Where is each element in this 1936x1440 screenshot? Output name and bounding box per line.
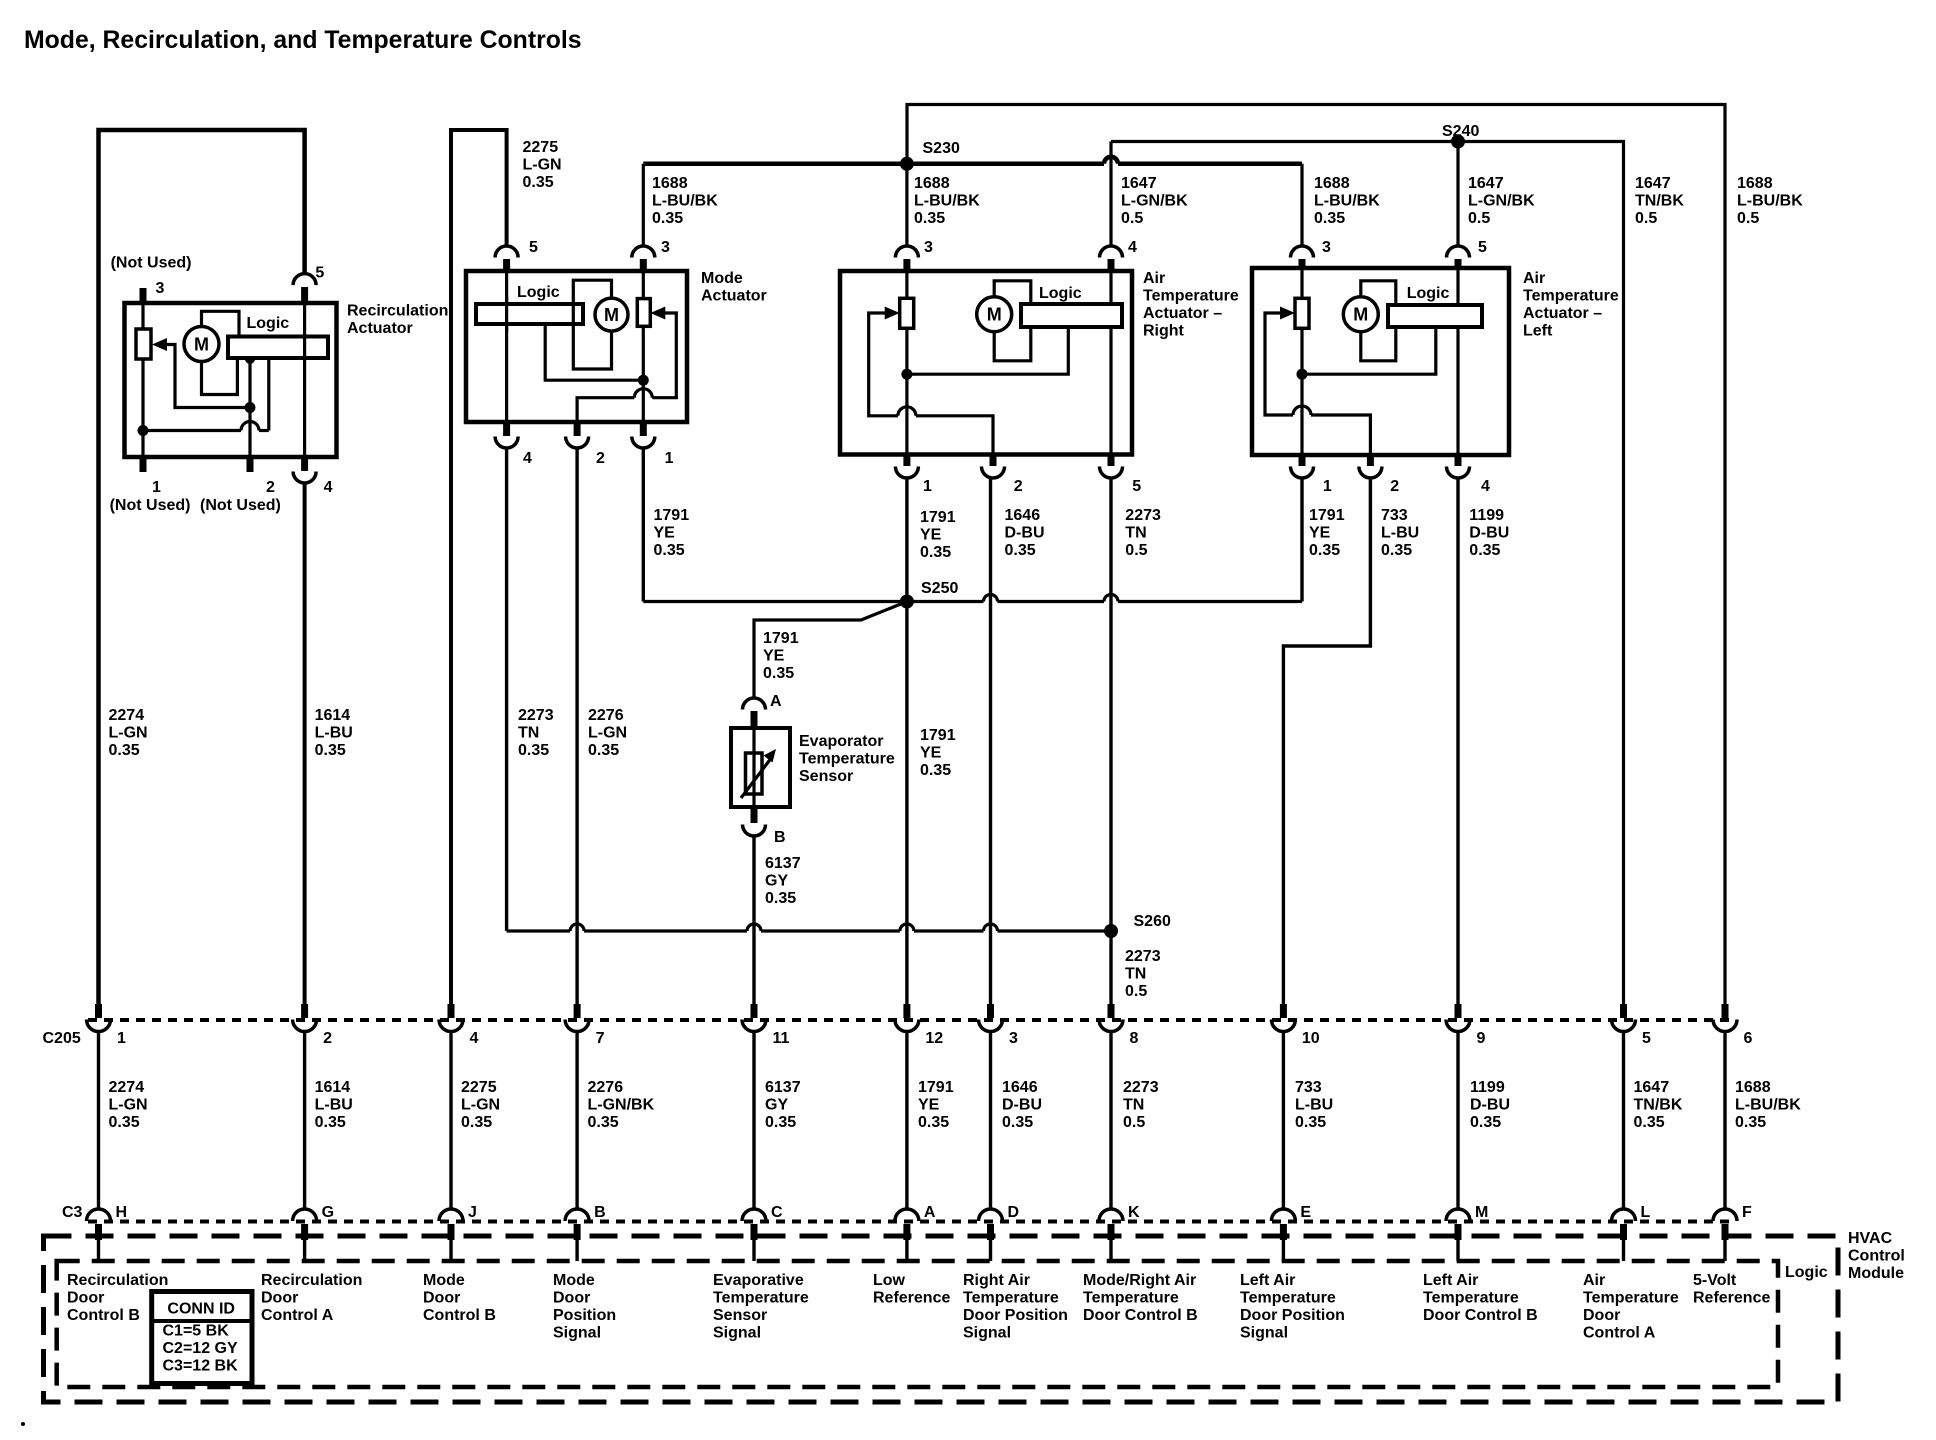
- svg-text:YE: YE: [1309, 525, 1331, 542]
- svg-text:8: 8: [1130, 1030, 1139, 1047]
- mode pin 4 connector: [495, 422, 518, 448]
- wire right ATA pin1 to S250 and on to C205 pin 12 (1791 YE): [905, 478, 908, 1004]
- label 1647 L-GN/BK 0.5: [1121, 175, 1188, 227]
- junction dot right ATA logic tie: [901, 369, 912, 380]
- svg-text:Logic: Logic: [247, 315, 290, 332]
- module pin label: Low Reference: [873, 1272, 950, 1307]
- wire right ATA pin2 down to C205 pin 3 (1646 D-BU): [989, 478, 992, 1004]
- recirc potentiometer: [136, 329, 151, 359]
- wire C3 pin H into HVAC module: [97, 1240, 100, 1261]
- label 2274 L-GN 0.35 (recirc loop column): [109, 707, 148, 759]
- svg-text:L-BU/BK: L-BU/BK: [914, 193, 980, 210]
- left ATA motor bottom lead: [1361, 327, 1396, 361]
- labels (Not Used) below recirc pins 1 and 2: [110, 497, 281, 514]
- svg-text:Mode/Right Air: Mode/Right Air: [1083, 1272, 1196, 1289]
- label 1791 YE 0.35 (evap A): [763, 630, 799, 682]
- left ATA motor top lead: [1361, 281, 1396, 305]
- svg-text:YE: YE: [654, 525, 676, 542]
- wire mode pin1 down to S250 (1791 YE): [642, 448, 645, 602]
- label: Recirculation Actuator: [347, 303, 448, 338]
- svg-text:2: 2: [596, 450, 605, 467]
- svg-text:L: L: [1641, 1204, 1651, 1221]
- svg-text:Signal: Signal: [713, 1325, 761, 1342]
- mode wiper wire to pin 2 (hop over pin1 column): [577, 313, 676, 422]
- left ATA pin3 column to pot: [1300, 268, 1303, 298]
- C3 pin J connector: [439, 1209, 463, 1240]
- svg-text:Sensor: Sensor: [799, 768, 853, 785]
- label 1791 YE 0.35 (left ATA pin1): [1309, 507, 1345, 559]
- label 1688 L-BU/BK 0.35 (left ATA pin3): [1314, 175, 1380, 227]
- mode pin 3 connector: [632, 246, 655, 271]
- right ATA pin 3 connector: [895, 246, 918, 271]
- C205 pin 3 connector: [979, 1004, 1003, 1032]
- svg-text:Signal: Signal: [963, 1325, 1011, 1342]
- right ATA motor M: [977, 297, 1012, 332]
- C205 pin 5 connector: [1612, 1004, 1636, 1032]
- right ATA pin 4 connector: [1100, 246, 1123, 271]
- mode pot bottom to pin 1 column: [642, 326, 645, 422]
- left ATA wiper arrow: [1280, 307, 1295, 320]
- wire C3 pin B into HVAC module: [575, 1240, 578, 1261]
- svg-text:0.35: 0.35: [1005, 542, 1036, 559]
- left ATA motor M: [1343, 297, 1378, 332]
- label 1199 D-BU 0.35: [1469, 507, 1509, 559]
- label 6137 GY 0.35: [765, 855, 801, 907]
- wire C205 pin 11 to C3 pin C: [752, 1030, 755, 1210]
- svg-text:1688: 1688: [1735, 1079, 1771, 1096]
- splice S260 line from mode pin4 to 2273 column (hops over 4 wires): [507, 924, 1111, 931]
- wire C3 pin F into HVAC module: [1723, 1240, 1726, 1261]
- svg-text:1647: 1647: [1121, 175, 1157, 192]
- right ATA motor top lead: [994, 281, 1031, 304]
- svg-text:2: 2: [1390, 478, 1399, 495]
- svg-text:L-GN/BK: L-GN/BK: [1121, 193, 1188, 210]
- wire C3 pin G into HVAC module: [303, 1240, 306, 1261]
- label 2276 L-GN 0.35: [588, 707, 627, 759]
- recirculation actuator box: [125, 303, 337, 457]
- svg-text:YE: YE: [920, 527, 942, 544]
- right ATA potentiometer: [900, 298, 914, 328]
- svg-text:0.5: 0.5: [1635, 210, 1657, 227]
- label 1614 L-BU 0.35 (recirc pin4 column): [315, 707, 353, 759]
- C205 pin 7 connector: [565, 1004, 589, 1032]
- svg-text:TN: TN: [1125, 966, 1146, 983]
- svg-text:0.35: 0.35: [1735, 1114, 1766, 1131]
- svg-text:1: 1: [152, 479, 161, 496]
- svg-text:Temperature: Temperature: [963, 1290, 1059, 1307]
- svg-text:0.35: 0.35: [1002, 1114, 1033, 1131]
- splice S240: [1451, 135, 1465, 149]
- label 2275 L-GN 0.35: [523, 139, 562, 191]
- right ATA pin 5 connector: [1100, 455, 1123, 479]
- mode pin 2 connector: [566, 422, 589, 448]
- svg-text:1647: 1647: [1634, 1079, 1670, 1096]
- svg-text:L-GN: L-GN: [109, 725, 148, 742]
- svg-text:L-BU/BK: L-BU/BK: [1737, 193, 1803, 210]
- svg-text:G: G: [322, 1204, 334, 1221]
- svg-text:1199: 1199: [1470, 1079, 1505, 1096]
- wire: 1688 trunk at y164 from Mode pin3 to Left ATA pin3: [643, 157, 1302, 164]
- module pin label: Left Air Temperature Door Position Signal: [1240, 1272, 1345, 1342]
- label 1647 L-GN/BK 0.5 (left ATA pin5): [1468, 175, 1535, 227]
- wire evap pin B down to C205 pin 11 (6137 GY): [752, 835, 755, 1004]
- svg-text:M: M: [194, 335, 209, 355]
- svg-text:Temperature: Temperature: [1523, 288, 1619, 305]
- evap thermistor element: [746, 753, 763, 794]
- wire C205 pin 1 to C3 pin H: [97, 1030, 100, 1210]
- label 1614 L-BU 0.35 (C205 pin 2): [315, 1079, 353, 1131]
- wire mode pin2 down to C205 pin7 (2276 L-GN): [575, 448, 578, 1004]
- svg-text:(Not Used): (Not Used): [111, 255, 192, 272]
- svg-text:TN: TN: [1123, 1097, 1144, 1114]
- svg-text:L-BU: L-BU: [1381, 525, 1419, 542]
- svg-text:S240: S240: [1442, 123, 1479, 140]
- wire C3 pin K into HVAC module: [1109, 1240, 1112, 1261]
- wire C3 pin A into HVAC module: [905, 1240, 908, 1261]
- junction dot at logic bottom x250: [245, 354, 255, 364]
- module pin label: Left Air Temperature Door Control B: [1423, 1272, 1538, 1324]
- svg-text:1647: 1647: [1635, 175, 1671, 192]
- left ATA pin 1 connector: [1291, 455, 1314, 478]
- C3 pin F connector: [1713, 1209, 1737, 1240]
- svg-text:2: 2: [266, 479, 275, 496]
- svg-text:Left Air: Left Air: [1423, 1272, 1478, 1289]
- right ATA pot bottom to pin1 column: [905, 328, 908, 454]
- label 6137 GY 0.35 (C205 pin 11): [765, 1079, 801, 1131]
- left ATA logic-bottom tie wire: [1302, 327, 1436, 374]
- C205 pin 6 connector: [1713, 1004, 1737, 1032]
- svg-text:B: B: [594, 1204, 606, 1221]
- svg-text:1688: 1688: [1737, 175, 1773, 192]
- svg-text:Temperature: Temperature: [1083, 1290, 1179, 1307]
- wire C3 pin E into HVAC module: [1282, 1240, 1285, 1261]
- wire C3 pin M into HVAC module: [1456, 1240, 1459, 1261]
- svg-text:1: 1: [1323, 478, 1332, 495]
- evap pin B connector: [743, 807, 766, 836]
- svg-text:Recirculation: Recirculation: [261, 1272, 362, 1289]
- svg-text:Logic: Logic: [1407, 285, 1450, 302]
- svg-text:Mode: Mode: [553, 1272, 595, 1289]
- svg-text:0.35: 0.35: [920, 544, 951, 561]
- recirc pin 5 connector: [293, 274, 316, 303]
- svg-text:2276: 2276: [588, 707, 624, 724]
- svg-text:Logic: Logic: [517, 284, 560, 301]
- label HVAC Control Module: [1848, 1230, 1905, 1282]
- mode logic block: [476, 304, 583, 324]
- splice S230: [900, 157, 914, 171]
- C3 pin M connector: [1446, 1209, 1470, 1240]
- svg-text:Control A: Control A: [261, 1307, 334, 1324]
- label 1646 D-BU 0.35 (C205 pin 3): [1002, 1079, 1042, 1131]
- svg-text:Recirculation: Recirculation: [347, 303, 448, 320]
- svg-text:5-Volt: 5-Volt: [1693, 1272, 1737, 1289]
- svg-text:S260: S260: [1134, 913, 1171, 930]
- splice S250: [900, 595, 914, 609]
- svg-text:Reference: Reference: [873, 1290, 950, 1307]
- svg-text:0.35: 0.35: [1295, 1114, 1326, 1131]
- svg-text:Reference: Reference: [1693, 1290, 1770, 1307]
- wire: second bus S240 line (1647) from right ATA pin4 riser to C205 pin 5 riser: [1111, 142, 1624, 1005]
- label 733 L-BU 0.35: [1381, 507, 1419, 559]
- module pin label: Right Air Temperature Door Position Signal: [963, 1272, 1068, 1342]
- C3 pin E connector: [1271, 1209, 1295, 1240]
- module pin label: Air Temperature Door Control A: [1583, 1272, 1679, 1342]
- svg-text:0.35: 0.35: [315, 1114, 346, 1131]
- mode potentiometer: [637, 299, 650, 327]
- junction dot pot-bottom tie: [138, 425, 149, 436]
- svg-text:2273: 2273: [1125, 948, 1161, 965]
- svg-text:0.35: 0.35: [1470, 1114, 1501, 1131]
- svg-text:0.35: 0.35: [763, 665, 794, 682]
- connector C3 dotted line: [88, 1220, 1734, 1224]
- left ATA potentiometer: [1295, 298, 1309, 328]
- svg-text:1646: 1646: [1005, 507, 1041, 524]
- evaporator temperature sensor pin A connector: [743, 698, 766, 728]
- svg-text:Right: Right: [1143, 323, 1185, 340]
- svg-text:5: 5: [1642, 1030, 1651, 1047]
- svg-text:Temperature: Temperature: [1143, 288, 1239, 305]
- svg-text:10: 10: [1302, 1030, 1320, 1047]
- wire C205 pin 8 to C3 pin K: [1109, 1030, 1112, 1210]
- wire mode pin3 riser to 1688 trunk: [642, 164, 645, 246]
- svg-text:1647: 1647: [1468, 175, 1504, 192]
- svg-text:0.5: 0.5: [1125, 983, 1147, 1000]
- svg-text:2273: 2273: [518, 707, 554, 724]
- svg-text:L-GN: L-GN: [109, 1097, 148, 1114]
- wire C205 pin 12 to C3 pin A: [905, 1030, 908, 1210]
- svg-text:YE: YE: [918, 1097, 940, 1114]
- svg-text:D-BU: D-BU: [1005, 525, 1045, 542]
- svg-text:F: F: [1742, 1204, 1752, 1221]
- svg-text:11: 11: [773, 1030, 790, 1047]
- svg-text:Door: Door: [261, 1290, 298, 1307]
- svg-text:2274: 2274: [109, 707, 145, 724]
- svg-text:5: 5: [1132, 478, 1141, 495]
- svg-text:4: 4: [523, 450, 532, 467]
- svg-text:Left: Left: [1523, 323, 1553, 340]
- svg-text:Module: Module: [1848, 1265, 1904, 1282]
- wire left ATA pin4 down to C205 pin 9 (1199 D-BU): [1456, 478, 1459, 1004]
- svg-text:1791: 1791: [1309, 507, 1345, 524]
- svg-text:Door: Door: [423, 1290, 460, 1307]
- svg-text:Actuator –: Actuator –: [1143, 305, 1222, 322]
- C3 pin K connector: [1099, 1209, 1123, 1240]
- svg-text:Air: Air: [1523, 270, 1545, 287]
- svg-text:0.35: 0.35: [109, 742, 140, 759]
- label 2274 L-GN 0.35 (C205 pin 1): [109, 1079, 148, 1131]
- svg-text:6: 6: [1744, 1030, 1753, 1047]
- svg-text:E: E: [1300, 1204, 1311, 1221]
- svg-text:1614: 1614: [315, 707, 351, 724]
- label 1199 D-BU 0.35 (C205 pin 9): [1470, 1079, 1510, 1131]
- svg-text:733: 733: [1295, 1079, 1322, 1096]
- svg-text:HVAC: HVAC: [1848, 1230, 1893, 1247]
- svg-text:12: 12: [925, 1030, 943, 1047]
- wire C205 pin 3 to C3 pin D: [989, 1030, 992, 1210]
- svg-text:C205: C205: [43, 1030, 81, 1047]
- left ATA pin 3 connector: [1291, 246, 1314, 268]
- svg-text:Actuator –: Actuator –: [1523, 305, 1602, 322]
- svg-text:0.35: 0.35: [1309, 542, 1340, 559]
- module pin label: Mode Door Position Signal: [553, 1272, 616, 1342]
- recirc wire pot-bottom tie to logic (with hop over pin2 wire): [143, 358, 269, 431]
- svg-text:0.35: 0.35: [654, 542, 685, 559]
- right ATA pin3 column to pot: [905, 271, 908, 298]
- svg-text:Left Air: Left Air: [1240, 1272, 1295, 1289]
- svg-text:1: 1: [117, 1030, 126, 1047]
- svg-text:YE: YE: [763, 648, 785, 665]
- recirc wiper arrow: [152, 338, 167, 351]
- label 2273 TN 0.5: [1125, 507, 1161, 559]
- wire C3 pin C into HVAC module: [752, 1240, 755, 1261]
- svg-text:3: 3: [661, 239, 670, 256]
- label 1647 TN/BK 0.5 (right riser): [1635, 175, 1684, 227]
- wire S240 down to left ATA pin 5: [1456, 142, 1459, 247]
- recirc pin 1 stub (Not Used): [140, 457, 147, 472]
- left ATA wiper wire to pin 2 (hop over pin1 column): [1265, 313, 1370, 455]
- label 2275 L-GN 0.35 (C205 pin 4): [461, 1079, 500, 1131]
- svg-text:733: 733: [1381, 507, 1408, 524]
- svg-text:2274: 2274: [109, 1079, 145, 1096]
- wire: top bus from S230 up-over to C205 pin 6 (1688 L-BU/BK 0.5): [907, 105, 1725, 1005]
- label: Mode Actuator: [701, 270, 767, 305]
- C205 pin 4 connector: [439, 1004, 463, 1032]
- wire C3 pin D into HVAC module: [989, 1240, 992, 1261]
- svg-text:(Not Used): (Not Used): [200, 497, 281, 514]
- svg-text:Door: Door: [1583, 1307, 1620, 1324]
- wire C3 pin L into HVAC module: [1622, 1240, 1625, 1261]
- svg-text:Door Control B: Door Control B: [1083, 1307, 1198, 1324]
- svg-text:L-BU/BK: L-BU/BK: [652, 193, 718, 210]
- left ATA pin 5 connector: [1447, 246, 1470, 268]
- C205 pin 1 connector: [87, 1004, 111, 1032]
- svg-text:Mode: Mode: [701, 270, 743, 287]
- evap thermistor arrow: [741, 757, 772, 798]
- svg-text:0.35: 0.35: [588, 1114, 619, 1131]
- recirc wire logic-bottom to pin 2: [248, 358, 251, 457]
- svg-text:Door Control B: Door Control B: [1423, 1307, 1538, 1324]
- svg-text:Mode: Mode: [423, 1272, 465, 1289]
- svg-text:0.5: 0.5: [1125, 542, 1147, 559]
- right ATA pin5 wire logic bottom to box bottom: [1109, 327, 1112, 455]
- svg-text:0.35: 0.35: [765, 890, 796, 907]
- svg-text:S250: S250: [921, 580, 958, 597]
- svg-text:1: 1: [665, 450, 674, 467]
- right ATA wiper wire to pin 2 (hop over pin1 column): [869, 313, 993, 455]
- left ATA pin5 wire into logic top: [1456, 268, 1459, 305]
- svg-text:D-BU: D-BU: [1469, 525, 1509, 542]
- svg-text:L-GN: L-GN: [461, 1097, 500, 1114]
- svg-text:Temperature: Temperature: [1583, 1290, 1679, 1307]
- svg-text:3: 3: [1322, 239, 1331, 256]
- svg-text:2275: 2275: [461, 1079, 497, 1096]
- svg-text:0.5: 0.5: [1468, 210, 1490, 227]
- svg-text:M: M: [604, 305, 619, 325]
- svg-text:1791: 1791: [654, 507, 690, 524]
- svg-text:2: 2: [1014, 478, 1023, 495]
- svg-text:6137: 6137: [765, 855, 801, 872]
- svg-text:5: 5: [1478, 239, 1487, 256]
- svg-text:TN/BK: TN/BK: [1634, 1097, 1683, 1114]
- recirc pin 2 stub (Not Used): [247, 457, 254, 472]
- evaporator temperature sensor box: [731, 728, 790, 807]
- right air temperature actuator box: [840, 271, 1132, 455]
- svg-text:1791: 1791: [918, 1079, 954, 1096]
- svg-text:C1=5 BK: C1=5 BK: [163, 1323, 230, 1340]
- mode motor loop rectangle: [573, 280, 611, 369]
- svg-text:Control: Control: [1848, 1248, 1905, 1265]
- svg-text:S230: S230: [923, 140, 960, 157]
- svg-text:Logic: Logic: [1039, 285, 1082, 302]
- C3 pin A connector: [895, 1209, 919, 1240]
- C3 pin C connector: [742, 1209, 766, 1240]
- svg-text:Door Position: Door Position: [1240, 1307, 1345, 1324]
- wire mode pin4 down to S260 (2273 TN): [505, 448, 508, 931]
- module pin label: Recirculation Door Control B: [67, 1272, 168, 1324]
- recirc motor top lead to logic top: [202, 311, 240, 336]
- splice S260: [1104, 924, 1118, 938]
- module pin label: Recirculation Door Control A: [261, 1272, 362, 1324]
- C3 pin H connector: [87, 1209, 111, 1240]
- label 1688 L-BU/BK 0.5 (far right riser): [1737, 175, 1803, 227]
- label 733 L-BU 0.35 (C205 pin 10): [1295, 1079, 1333, 1131]
- junction dot left ATA logic tie: [1297, 369, 1308, 380]
- wire C205 pin 5 to C3 pin L: [1622, 1030, 1625, 1210]
- stray dot bottom left: [21, 1422, 25, 1426]
- svg-text:0.5: 0.5: [1737, 210, 1759, 227]
- module pin label: 5-Volt Reference: [1693, 1272, 1770, 1307]
- C205 pin 12 connector: [895, 1004, 919, 1032]
- svg-text:GY: GY: [765, 873, 788, 890]
- svg-text:Logic: Logic: [1785, 1264, 1828, 1281]
- svg-text:L-BU/BK: L-BU/BK: [1314, 193, 1380, 210]
- recirculation actuator outer loop wire (pin5 to C205 pin1, 2274 L-GN): [99, 130, 305, 1004]
- svg-text:A: A: [924, 1204, 936, 1221]
- svg-text:1791: 1791: [763, 630, 799, 647]
- svg-text:0.35: 0.35: [518, 742, 549, 759]
- svg-text:Actuator: Actuator: [701, 288, 767, 305]
- label 1791 YE 0.35 (below S250): [920, 727, 956, 779]
- svg-text:CONN ID: CONN ID: [167, 1301, 235, 1318]
- svg-text:0.35: 0.35: [765, 1114, 796, 1131]
- module pin label: Mode Door Control B: [423, 1272, 496, 1324]
- label 1791 YE 0.35 (mode pin1): [654, 507, 690, 559]
- C205 pin 2 connector: [293, 1004, 317, 1032]
- svg-text:1688: 1688: [1314, 175, 1350, 192]
- C205 pin 10 connector: [1271, 1004, 1295, 1032]
- svg-text:9: 9: [1477, 1030, 1486, 1047]
- svg-text:Temperature: Temperature: [1240, 1290, 1336, 1307]
- label: Evaporator Temperature Sensor: [799, 733, 895, 785]
- HVAC module logic inner dashed box: [57, 1261, 1778, 1387]
- svg-text:L-GN: L-GN: [588, 725, 627, 742]
- wire C205 pin 6 to C3 pin F: [1723, 1030, 1726, 1210]
- svg-text:0.35: 0.35: [315, 742, 346, 759]
- mode logic-bottom tie wire: [545, 324, 643, 380]
- svg-text:L-BU: L-BU: [315, 725, 353, 742]
- recirc motor M: [184, 327, 219, 362]
- mode pin 1 connector: [632, 422, 655, 448]
- mode motor M: [595, 298, 628, 331]
- label 1688 L-BU/BK 0.35 (mode): [652, 175, 718, 227]
- svg-text:0.35: 0.35: [1381, 542, 1412, 559]
- right ATA pin4 wire into logic top: [1109, 271, 1112, 304]
- svg-text:L-GN: L-GN: [523, 157, 562, 174]
- svg-text:A: A: [770, 693, 782, 710]
- wire C3 pin J into HVAC module: [449, 1240, 452, 1261]
- C3 pin B connector: [565, 1209, 589, 1240]
- mode pin 5 connector: [495, 246, 518, 271]
